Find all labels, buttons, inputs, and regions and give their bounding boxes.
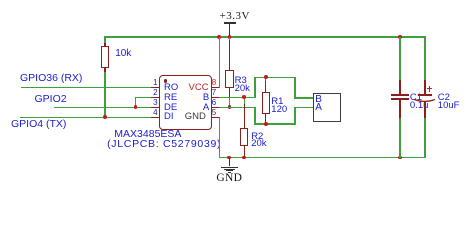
junction 10k/GPIO4 <box>103 115 107 119</box>
junction R1 top <box>264 75 268 79</box>
pin number 2 <box>153 89 158 97</box>
pin number 1 <box>153 79 158 87</box>
wire B jog top horizontal <box>254 77 296 79</box>
wire A line from pin 6 <box>219 107 256 109</box>
wire A jog down <box>254 107 256 125</box>
connector pin label A <box>315 103 322 113</box>
pin number 7 <box>212 89 216 97</box>
wire B jog down to connector <box>294 77 296 98</box>
pin name DI <box>164 112 174 122</box>
pin name GND <box>185 112 206 122</box>
resistor R3 20k <box>229 37 231 41</box>
resistor R2 20k <box>244 97 246 104</box>
pin name RE <box>164 93 177 103</box>
pin 2 stub <box>151 97 160 99</box>
capacitor C1 0.1u <box>399 37 401 81</box>
net label GPIO2 <box>35 94 67 105</box>
wire GPIO4 to pin 4 <box>20 117 151 119</box>
junction ground symbol <box>227 156 231 160</box>
wire GPIO2 to pin 3 <box>54 107 151 109</box>
label JLCPCB part number <box>107 139 221 150</box>
junction RE/DE <box>134 105 138 109</box>
junction R2/B-line <box>242 95 246 99</box>
connector J1 box <box>313 93 340 123</box>
junction R1 bottom <box>264 122 268 126</box>
pin 1 stub <box>151 87 160 89</box>
pin 3 stub <box>151 107 160 109</box>
capacitor C2 10uF polarized <box>424 37 426 81</box>
pin number 8 <box>212 79 216 87</box>
wire ground rail <box>219 157 426 159</box>
pin name A <box>203 103 209 113</box>
pin name B <box>203 93 209 103</box>
pin 7 stub <box>211 97 220 99</box>
junction rail/C1 <box>398 35 402 39</box>
junction rail/pin8 <box>217 35 221 39</box>
pin number 3 <box>153 99 158 107</box>
wire RE-DE tie horizontal <box>135 97 151 99</box>
pin name VCC <box>189 83 209 93</box>
wire B line from pin 7 <box>219 97 256 99</box>
wire pin 5 to ground rail <box>219 117 221 158</box>
net label GPIO4 (TX) <box>11 119 66 130</box>
pin 5 stub <box>211 117 220 119</box>
label MAX3485ESA <box>114 129 181 140</box>
resistor R4 10k pull-up <box>104 37 106 44</box>
junction rail/R3 <box>228 35 232 39</box>
IC U1 MAX3485ESA body <box>159 75 212 130</box>
pin name RO <box>164 83 178 93</box>
pin 1 marker <box>164 79 167 82</box>
pin number 5 <box>212 109 216 117</box>
pin number 6 <box>212 99 216 107</box>
wire pin8 VCC to rail <box>219 37 221 88</box>
pin 4 stub <box>151 117 160 119</box>
pin name DE <box>164 103 177 113</box>
junction R2 bottom <box>242 156 246 160</box>
label GND <box>216 173 242 185</box>
power flag +3.3V <box>224 22 236 23</box>
pin number 4 <box>153 109 158 117</box>
junction R3/A-line <box>228 105 232 109</box>
wire +3.3V power rail <box>104 36 426 38</box>
wire B jog up <box>254 77 256 98</box>
wire A jog bottom horizontal <box>254 123 296 125</box>
plus sign C2 polarity <box>427 88 432 89</box>
pin 6 stub <box>211 107 220 109</box>
resistor R1 120 termination <box>265 77 267 81</box>
junction C1 bottom <box>398 156 402 160</box>
wire B into connector <box>294 97 314 99</box>
connector pin label B <box>315 95 322 105</box>
net label GPIO36 (RX) <box>20 73 82 84</box>
ground symbol <box>229 158 231 167</box>
wire A jog up to connector <box>294 107 296 125</box>
pin 8 stub <box>211 87 220 89</box>
wire GPIO36 to pin 1 <box>21 87 151 89</box>
wire A into connector <box>294 107 314 109</box>
wire RE-DE tie vertical <box>135 97 137 109</box>
